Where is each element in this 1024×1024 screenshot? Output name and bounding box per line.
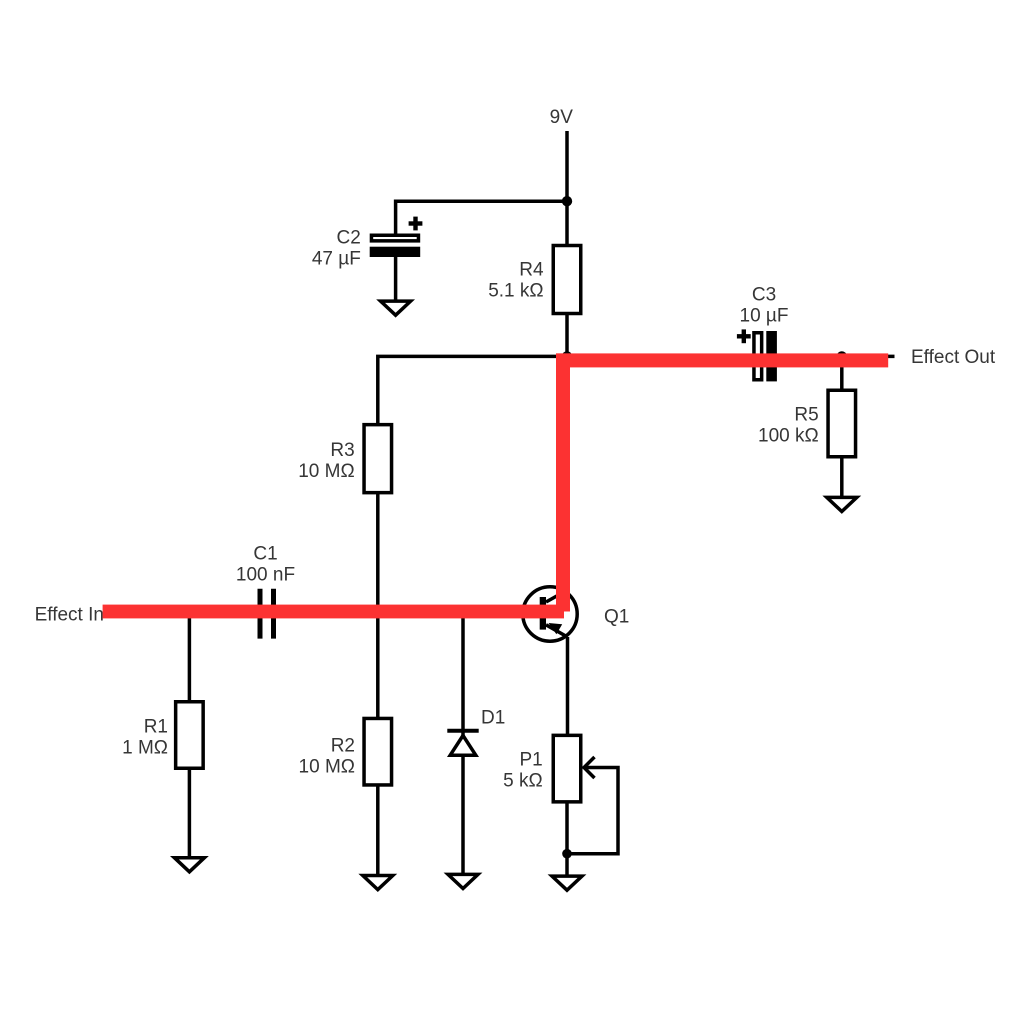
svg-text:100 kΩ: 100 kΩ	[758, 426, 819, 447]
svg-text:47 µF: 47 µF	[312, 248, 361, 269]
svg-text:9V: 9V	[550, 107, 574, 128]
svg-text:D1: D1	[481, 708, 505, 729]
svg-text:R5: R5	[794, 405, 818, 426]
svg-text:R1: R1	[144, 716, 168, 737]
svg-text:10 µF: 10 µF	[740, 306, 789, 327]
svg-text:C1: C1	[253, 543, 277, 564]
svg-text:C2: C2	[337, 227, 361, 248]
svg-text:R3: R3	[330, 440, 354, 461]
svg-text:10 MΩ: 10 MΩ	[298, 461, 354, 482]
svg-text:Effect In: Effect In	[35, 605, 104, 626]
svg-text:P1: P1	[519, 750, 542, 771]
svg-text:5.1 kΩ: 5.1 kΩ	[488, 280, 543, 301]
svg-text:R2: R2	[331, 736, 355, 757]
svg-text:R4: R4	[519, 259, 544, 280]
svg-text:1 MΩ: 1 MΩ	[122, 737, 168, 758]
svg-text:C3: C3	[752, 285, 776, 306]
svg-text:Q1: Q1	[604, 607, 629, 628]
svg-text:5 kΩ: 5 kΩ	[503, 771, 543, 792]
svg-text:Effect Out: Effect Out	[911, 347, 996, 368]
svg-text:10 MΩ: 10 MΩ	[299, 757, 355, 778]
svg-text:100 nF: 100 nF	[236, 564, 295, 585]
